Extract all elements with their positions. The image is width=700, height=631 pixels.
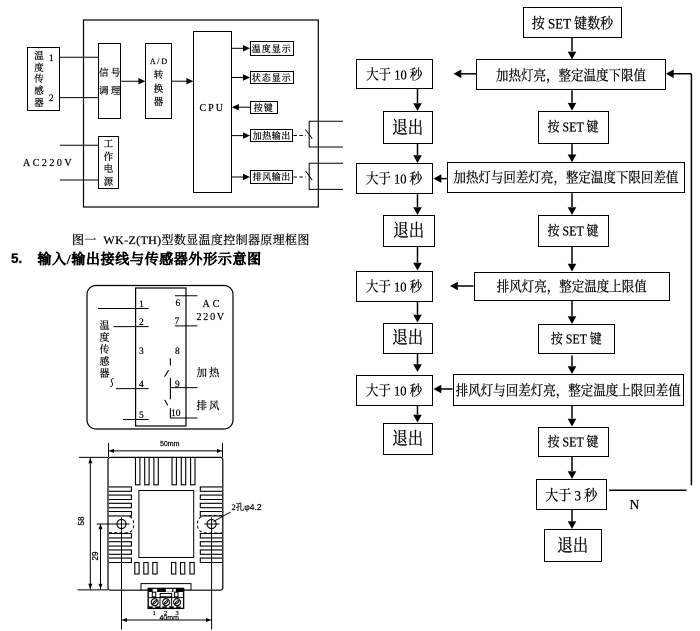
left connector G3-X3: [413, 302, 422, 323]
shield squiggle: [110, 378, 114, 387]
terminal labels 1 2 3: [153, 610, 156, 617]
pin 4 lead: [116, 388, 149, 390]
arrow CPU to 状态显示: [232, 74, 250, 80]
block 温度显示: [250, 41, 294, 56]
arrow CPU to 温度显示: [232, 45, 250, 51]
device body outline: [108, 457, 223, 590]
left connector X1-G2: [413, 144, 422, 164]
label 加热: [197, 368, 222, 379]
flow box G2 大于10秒: [356, 163, 433, 194]
right hole: [204, 518, 219, 630]
label 排风: [197, 401, 222, 412]
wire sensor pin1 to 信号调理: [59, 56, 98, 58]
connector shroud: [141, 584, 191, 590]
flow box X3 退出: [383, 323, 433, 354]
top vents left group: [136, 458, 159, 485]
extension right body edge: [222, 443, 224, 458]
flow connector J-K: [568, 510, 577, 529]
arrow CPU to 排风输出: [232, 174, 250, 180]
feedback wire J to B: [609, 70, 691, 491]
arrow A/D to CPU: [172, 78, 194, 84]
left mounting ear: [109, 516, 134, 533]
block 加热输出: [250, 129, 293, 143]
terminal strip body: [136, 288, 186, 426]
pin 7 lead: [175, 325, 198, 327]
section heading 5: [11, 252, 22, 266]
flow connector E-F: [568, 247, 577, 272]
block 信号调理: [98, 43, 121, 119]
left connector X3-G4: [413, 354, 422, 373]
block 按键: [250, 101, 278, 114]
fan contact bottom lead: [169, 408, 171, 418]
flow box H 排风灯与回差灯亮: [453, 374, 685, 406]
pin 9 lead: [170, 387, 197, 389]
flow box F 排风灯亮: [474, 272, 671, 302]
label AC220V: [23, 159, 74, 169]
relay K2 terminals: [309, 163, 343, 189]
flow connector I-J: [568, 457, 577, 480]
right vents lower group: [200, 534, 222, 563]
flow connector F-G: [568, 301, 577, 324]
flow connector D-E: [568, 193, 577, 215]
arrow 按键 to CPU: [232, 104, 250, 110]
block A/D转换器: [145, 43, 171, 119]
flow box D 加热灯与回差灯亮: [447, 162, 686, 193]
wire AC L to 工作电源: [60, 144, 98, 146]
terminal block outline: [148, 588, 183, 608]
flow box I 按SET键: [538, 427, 609, 457]
arrow D to G2: [434, 174, 447, 183]
dim label 29: [92, 548, 100, 564]
flow box G4 大于10秒: [356, 375, 433, 406]
pin 5 lead: [123, 419, 149, 421]
block 排风输出: [250, 170, 293, 184]
dim 29 line: [99, 524, 103, 590]
label AC 220V: [203, 300, 223, 310]
dim 50mm line: [109, 449, 223, 453]
wire AC N to 工作电源: [60, 179, 98, 181]
contact blade K2: [306, 171, 313, 180]
label N: [630, 498, 640, 512]
bottom vents right group: [172, 563, 195, 575]
flow box B 加热灯亮: [476, 59, 666, 90]
arrow F to G3: [450, 282, 474, 291]
flow connector H-I: [568, 406, 577, 427]
arrow CPU to 加热输出: [232, 132, 250, 138]
flow box G3 大于10秒: [356, 271, 433, 303]
bottom vents left group: [135, 563, 157, 575]
arrow H to G4: [434, 385, 453, 394]
top vents right group: [172, 458, 195, 485]
dim 58 line: [78, 457, 108, 590]
heat contact bottom lead: [169, 378, 171, 389]
left vents lower group: [109, 534, 132, 563]
heat contact blade: [165, 370, 169, 377]
block 工作电源: [98, 136, 119, 190]
hole leader line: [214, 512, 231, 522]
flow box X4 退出: [383, 423, 433, 456]
terminal numbers 1-5: [139, 299, 144, 309]
left connector X2-G3: [413, 247, 422, 271]
left connector G4-X4: [413, 406, 422, 423]
extension left body edge: [108, 443, 110, 458]
pin 1 lead: [98, 308, 149, 310]
right mounting ear: [197, 516, 222, 534]
flow box A 按SET键数秒: [523, 7, 622, 38]
relay K1 terminals: [309, 121, 343, 147]
pin 6 lead: [175, 295, 198, 297]
pin 2 lead: [114, 326, 149, 328]
arrow B to G1: [454, 70, 477, 79]
flow box G 按SET键: [538, 324, 616, 354]
left vents upper group: [109, 487, 132, 516]
block 温度传感器: [27, 47, 60, 111]
flow box X2 退出: [383, 215, 436, 247]
terminal screw 2: [163, 599, 170, 606]
pin label 1: [49, 53, 54, 62]
fan contact blade: [165, 400, 168, 406]
flow box X1 退出: [383, 111, 433, 144]
flow box G1 大于10秒: [356, 59, 434, 89]
figure caption: [72, 234, 310, 246]
flow connector C-D: [568, 144, 577, 162]
left hole: [97, 518, 130, 630]
wiring diagram rounded enclosure: [87, 286, 233, 430]
flow box K 退出: [544, 529, 603, 562]
dim 40mm line: [122, 618, 212, 622]
terminal screw 1: [151, 599, 158, 606]
flow box J 大于3秒: [536, 479, 607, 510]
terminal numbers 6-10: [176, 298, 181, 308]
heat contact top lead: [169, 358, 171, 365]
arrow 信号调理 to A/D: [121, 78, 145, 84]
terminal screw 3: [174, 599, 181, 606]
right vents upper group: [200, 487, 222, 516]
flow connector G-H: [568, 356, 577, 375]
dim label 50mm: [160, 441, 179, 448]
pin label 2: [49, 93, 54, 102]
label plate rect: [139, 491, 194, 558]
dashed wire 加热输出 to contact: [293, 135, 306, 137]
flow box E 按SET键: [538, 215, 609, 247]
block CPU: [193, 31, 232, 193]
dim label 58: [78, 513, 86, 529]
contact blade K1: [306, 130, 313, 139]
dim label 40mm: [160, 615, 179, 622]
left connector G2-X2: [413, 194, 422, 215]
sensor label 温度传感器 vertical: [98, 319, 112, 379]
block diagram outer frame: [84, 20, 319, 207]
fan contact top lead: [169, 389, 171, 400]
wire sensor pin2 to 信号调理: [59, 97, 98, 99]
dashed wire 排风输出 to contact: [293, 176, 306, 178]
hole label 2孔φ4.2: [232, 503, 262, 512]
pin 10 lead: [170, 417, 197, 419]
flow connector B-C: [568, 90, 577, 110]
flow connector A-B: [568, 38, 577, 60]
block 状态显示: [250, 71, 294, 85]
left connector G1-X1: [413, 89, 422, 111]
flow box C 按SET键: [538, 111, 609, 144]
